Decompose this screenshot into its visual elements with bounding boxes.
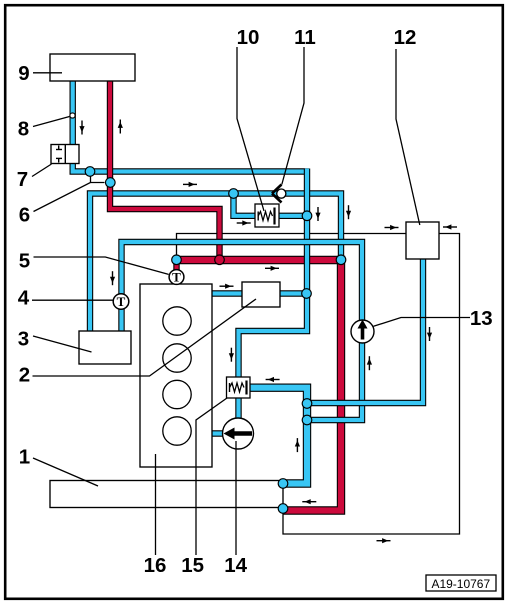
wire: cyan stub engine to pump 14 bbox=[208, 430, 228, 436]
leader line 10 bbox=[237, 47, 264, 211]
drawing number box A19-10767 bbox=[426, 575, 496, 591]
flow arrow down right of cyan pipe from rect 9 bbox=[79, 121, 84, 135]
component 15 restrictor box with spring bbox=[227, 377, 251, 398]
leader line 13 bbox=[374, 318, 471, 327]
leader line 12 bbox=[396, 49, 420, 225]
node: junction dot at red corner x=341 bbox=[336, 255, 346, 265]
leader line 6 bbox=[34, 177, 105, 212]
flow arrow up right of red pipe to rect 9 bbox=[118, 120, 123, 134]
component 13 pump (circle with up arrow) bbox=[351, 320, 374, 344]
node: junction dot at rect1 top right bbox=[278, 479, 288, 489]
svg-text:12: 12 bbox=[394, 26, 417, 49]
component 11 check valve bbox=[272, 185, 286, 203]
component 1 long rectangle (heater core) bbox=[50, 481, 283, 508]
wire: main red run y=259.5 right, down x=341, left y=510.5 to node bbox=[177, 260, 342, 511]
leader line 4 bbox=[32, 299, 113, 301]
svg-text:16: 16 bbox=[144, 554, 167, 577]
node: junction dot at x307 y215.8 bbox=[302, 211, 312, 221]
flow arrow right on top run bbox=[183, 182, 197, 187]
flow arrow right below return line y534 bbox=[377, 538, 391, 543]
wire: cyan pipe from rect 9 down through valve 7 to corner, top run y=171.5 to corner x=307 bbox=[73, 78, 309, 172]
svg-text:T: T bbox=[117, 294, 126, 309]
flow arrow down right of box12 pipe bbox=[427, 327, 432, 341]
svg-text:6: 6 bbox=[19, 203, 30, 226]
svg-text:A19-10767: A19-10767 bbox=[431, 577, 490, 591]
node: junction dot x307 y420 bbox=[302, 415, 312, 425]
svg-text:13: 13 bbox=[470, 307, 493, 330]
svg-text:14: 14 bbox=[224, 554, 247, 577]
svg-text:1: 1 bbox=[19, 445, 30, 468]
svg-text:9: 9 bbox=[18, 62, 29, 85]
component 10 restrictor box with spring bbox=[255, 204, 279, 227]
component 14 pump (circle with left arrow) bbox=[223, 418, 254, 449]
svg-text:5: 5 bbox=[19, 249, 30, 272]
svg-text:T: T bbox=[172, 270, 181, 285]
flow arrow up left of pipe x307 lower bbox=[295, 438, 300, 452]
sensor 5 temperature sender bbox=[169, 270, 184, 285]
leader line 11 bbox=[282, 47, 304, 185]
svg-text:15: 15 bbox=[181, 554, 204, 577]
flow arrow left above run y387.7 bbox=[266, 377, 280, 382]
leader line 16 bbox=[155, 454, 157, 555]
svg-text:2: 2 bbox=[19, 363, 30, 386]
svg-text:4: 4 bbox=[18, 286, 30, 309]
thin return line from box 12 right side down and left to node at heat exchanger bbox=[283, 234, 460, 535]
svg-text:8: 8 bbox=[18, 118, 29, 141]
svg-text:3: 3 bbox=[18, 327, 29, 350]
leader line 15 bbox=[196, 398, 227, 555]
flow arrow down right of x341 bbox=[346, 205, 351, 219]
flow arrow right before restrictor 10 bbox=[237, 220, 251, 225]
node: junction dot on run y193.5 at x=233.5 bbox=[229, 189, 239, 199]
wire: cyan pipe from box 12 down x=423, left y=403 to node bbox=[304, 255, 423, 403]
wire: cyan branch from run y193.5 at x=233.5 down to restrictor 10 and right to x307 bbox=[234, 194, 308, 216]
leader line 2 bbox=[33, 299, 257, 376]
svg-text:7: 7 bbox=[17, 168, 28, 191]
component 9 rectangle (heat exchanger) bbox=[50, 54, 135, 81]
component 7 valve box bbox=[51, 145, 79, 164]
leader line 7 bbox=[32, 164, 52, 177]
flow arrow left above red run y510.5 bbox=[302, 499, 316, 504]
sensor 4 temperature sender bbox=[113, 294, 129, 310]
flow arrow up right of pipe x362 bbox=[367, 356, 372, 370]
component 3 box (expansion tank) bbox=[79, 331, 131, 364]
node 6: junction dot on red pipe x=110 bbox=[106, 178, 116, 188]
wire: cyan pipe x=307 upper from corner y171.5 down to corner y331, left to x238.5, down to pump 14 bbox=[239, 169, 308, 426]
leader line 1 bbox=[33, 458, 98, 486]
flow arrow down left of sensor-4 pipe bbox=[110, 271, 115, 285]
flow arrow right above engine-box2 pipe bbox=[220, 284, 234, 289]
node: red junction dot at x=219.5 bbox=[215, 255, 225, 265]
component 2 box bbox=[242, 282, 280, 307]
leader line 14 bbox=[235, 441, 237, 555]
flow arrow right on red run bbox=[265, 266, 279, 271]
flow arrow right on signal line into box 12 bbox=[385, 225, 399, 230]
leader line 8 bbox=[33, 117, 70, 127]
flow arrow down left of corner x238.5 bbox=[229, 348, 234, 362]
wire: thick cyan from restrictor 15 right y=387.7, down x=307, left to node at rect 1 bbox=[245, 388, 307, 484]
node: junction dot x307 y403 bbox=[302, 399, 312, 409]
wire: red stub down to sensor 5 bbox=[173, 257, 179, 272]
wire: cyan pipe from sensor-4 branch corner x=122 down to box 3, run y=242 right, down x=362 through pump 13, left y=420 to node bbox=[122, 242, 363, 420]
node: junction dot at rect1 bottom right bbox=[278, 504, 288, 514]
wire: cyan pipe from box 3 up x=90, run y=193.5 right, down x=341 to red junction bbox=[90, 194, 341, 336]
wire: cyan stub engine to box 2 bbox=[208, 290, 303, 296]
leader line 5 bbox=[34, 257, 169, 274]
leader line 9 bbox=[33, 72, 62, 74]
component 16 engine block bbox=[140, 284, 212, 467]
svg-text:11: 11 bbox=[294, 26, 316, 49]
wire: red feed pipe from rect 9 down x=110, right y=209, down x=219.5 bbox=[110, 78, 220, 260]
node: junction dot on run y171.5 at x=90 bbox=[85, 167, 95, 177]
node: junction dot right of box 2 bbox=[302, 289, 312, 299]
svg-text:10: 10 bbox=[237, 26, 260, 49]
leader line 3 bbox=[33, 336, 92, 352]
flow arrow down right of x307 bbox=[315, 207, 320, 221]
flow arrow left on line right of box 12 bbox=[443, 224, 457, 229]
thin signal line from node at sensor G62 to box 12 bbox=[177, 234, 407, 256]
component 12 box bbox=[406, 222, 439, 259]
leader-8 endpoint circle on pipe bbox=[70, 113, 75, 118]
node: junction dot start of red run at x=176.5 bbox=[172, 255, 182, 265]
